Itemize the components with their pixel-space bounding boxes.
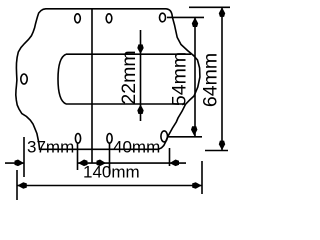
svg-text:64mm: 64mm [200, 53, 222, 107]
svg-text:22mm: 22mm [118, 50, 140, 104]
svg-text:54mm: 54mm [169, 52, 191, 106]
svg-text:37mm: 37mm [27, 138, 74, 157]
svg-text:40mm: 40mm [113, 138, 160, 157]
svg-text:140mm: 140mm [83, 163, 140, 182]
